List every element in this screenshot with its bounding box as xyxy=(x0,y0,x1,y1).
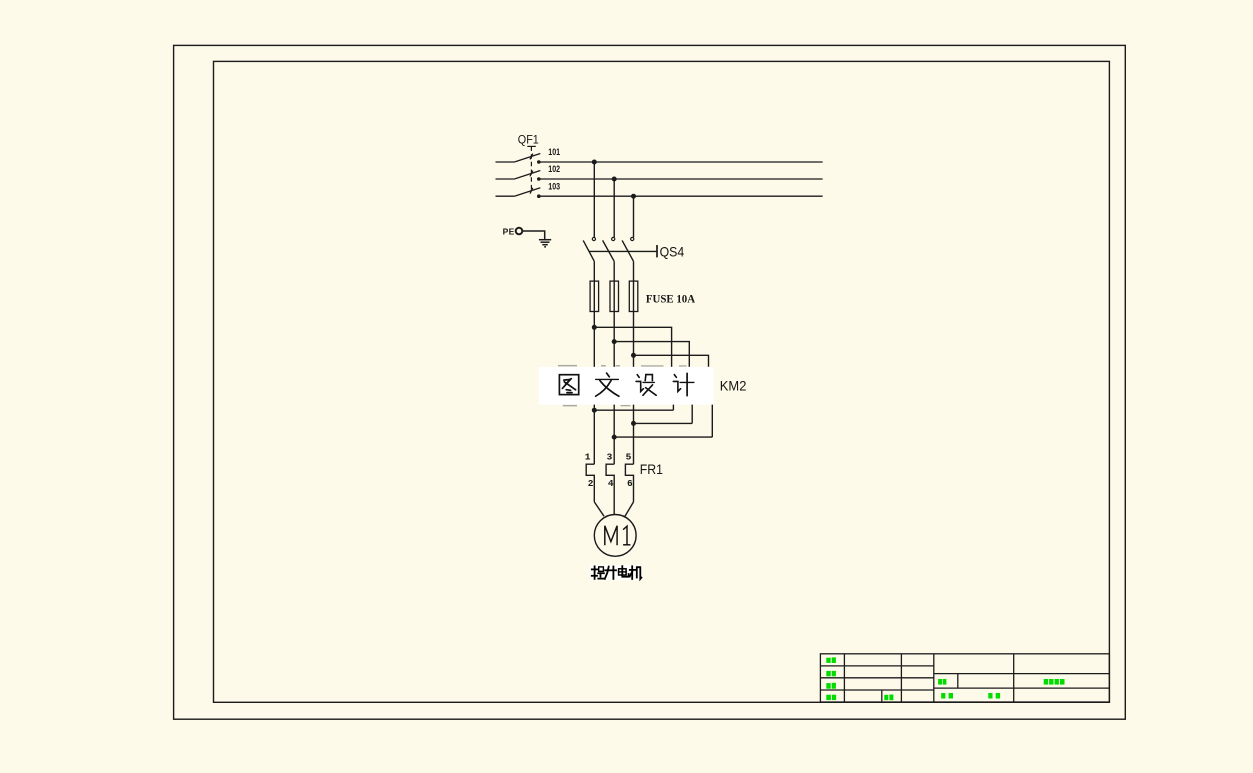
svg-text:PE: PE xyxy=(503,227,515,237)
svg-text:101: 101 xyxy=(548,147,560,157)
wire drop L3 xyxy=(631,194,636,238)
watermark hanzi SHE xyxy=(636,375,656,396)
hanzi JI xyxy=(631,566,633,579)
contactor ghost marks xyxy=(558,365,687,407)
svg-text:QF1: QF1 xyxy=(518,132,539,146)
title text pages label (green) xyxy=(988,693,1000,699)
breaker QF1 xyxy=(496,132,541,198)
wire drop L2 xyxy=(612,177,617,238)
pole 2 xyxy=(496,178,515,180)
svg-text:6: 6 xyxy=(627,478,633,489)
KM2 bypass wire b (top) xyxy=(614,342,689,367)
hanzi DIAN xyxy=(619,569,627,575)
KM2 return wire a xyxy=(592,408,674,413)
motor M1 xyxy=(594,515,636,557)
svg-text:5: 5 xyxy=(626,452,632,463)
wire drop L1 xyxy=(592,160,597,238)
hanzi TI xyxy=(594,566,596,579)
svg-text:102: 102 xyxy=(548,164,560,174)
watermark box xyxy=(539,367,714,405)
watermark hanzi JI xyxy=(673,373,694,395)
hanzi SHENG xyxy=(605,569,616,571)
fuse FU3 xyxy=(629,281,638,311)
svg-text:FR1: FR1 xyxy=(640,461,663,477)
KM2 bypass wire c (top) xyxy=(634,355,709,367)
bus line 101 xyxy=(539,161,822,163)
watermark hanzi TU xyxy=(559,375,578,395)
frame outer xyxy=(174,45,1126,719)
title text approve label (green) xyxy=(941,693,953,699)
thermal relay FR1 xyxy=(586,464,633,514)
wires fuses down to contactor xyxy=(594,312,633,367)
pole 3 xyxy=(496,195,515,197)
KM2 return wire c xyxy=(612,435,713,440)
motor name label 提升电机 xyxy=(590,565,642,580)
wires QS4 to fuses xyxy=(594,261,633,281)
svg-text:QS4: QS4 xyxy=(660,243,685,259)
title text row2 (green) xyxy=(826,671,836,676)
svg-text:2: 2 xyxy=(588,478,594,489)
svg-text:1: 1 xyxy=(585,452,591,463)
ground xyxy=(539,240,551,247)
fuse FU1 xyxy=(590,281,599,311)
title text row4 (green) xyxy=(826,695,836,700)
bus line 102 xyxy=(539,178,822,180)
frame inner xyxy=(214,61,1110,702)
title text school name (green) xyxy=(1044,679,1065,685)
title text drawing-no label (green) xyxy=(938,679,946,685)
svg-text:3: 3 xyxy=(607,452,613,463)
disconnect switch QS4 xyxy=(583,237,684,261)
title text row1 (green) xyxy=(826,657,836,663)
title block xyxy=(820,654,1109,702)
wires below contactor xyxy=(594,405,712,465)
title text row3 (green) xyxy=(826,683,836,689)
PE terminal xyxy=(503,227,545,240)
KM2 bypass wire a (top) xyxy=(594,327,671,367)
svg-text:FUSE 10A: FUSE 10A xyxy=(646,292,695,306)
watermark hanzi WEN xyxy=(596,373,619,396)
pole 1 xyxy=(496,161,515,163)
KM2 return wire b xyxy=(631,421,692,426)
fuse FU2 xyxy=(610,281,619,311)
svg-text:KM2: KM2 xyxy=(720,379,747,394)
bus line 103 xyxy=(539,195,822,197)
wires FR1 to motor xyxy=(594,502,633,517)
svg-text:103: 103 xyxy=(548,181,560,191)
title text scale label (green) xyxy=(884,695,893,701)
svg-text:4: 4 xyxy=(608,478,614,489)
